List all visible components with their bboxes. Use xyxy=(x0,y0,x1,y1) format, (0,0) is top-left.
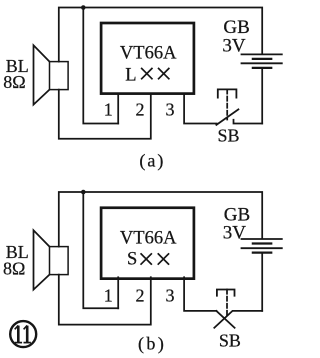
svg-text:SB: SB xyxy=(219,330,241,350)
pin 2 lead (a) and wire to speaker bottom xyxy=(59,90,151,139)
speaker BL (a) cone xyxy=(34,45,50,104)
svg-text:3: 3 xyxy=(166,285,175,305)
svg-text:1: 1 xyxy=(104,100,113,120)
svg-text:(b): (b) xyxy=(138,333,167,354)
svg-text:S: S xyxy=(127,250,137,270)
svg-text:VT66A: VT66A xyxy=(120,43,177,63)
figure number 11 digits xyxy=(15,325,31,342)
speaker BL (a) driver box xyxy=(50,62,69,90)
wire: (a) top bus from speaker up over to battery positive xyxy=(59,8,262,62)
svg-text:3: 3 xyxy=(166,100,175,120)
battery GB (a) long plate lower xyxy=(242,62,282,64)
svg-text:1: 1 xyxy=(104,285,113,305)
wire: (a) battery negative down to switch xyxy=(261,68,263,123)
pin 3 lead (b) and wire to switch xyxy=(184,277,216,311)
svg-text:(a): (a) xyxy=(139,151,165,172)
speaker BL (b) driver box xyxy=(50,247,69,275)
wire: (b) battery negative down to switch xyxy=(261,253,263,311)
switch SB (b) actuator dashed stem xyxy=(226,290,228,318)
chip label X symbol 2 of L×× (a) xyxy=(159,69,169,79)
svg-text:3V: 3V xyxy=(222,36,246,57)
svg-text:2: 2 xyxy=(136,100,145,120)
node: (b) junction dot on top bus xyxy=(81,190,86,195)
switch SB (b) crossed blade left xyxy=(216,311,234,328)
switch SB (a) actuator dashed stem xyxy=(226,89,228,119)
pin 1 lead (a) xyxy=(117,94,119,124)
svg-text:8Ω: 8Ω xyxy=(3,72,25,92)
wire: (b) top bus from speaker up over to battery positive xyxy=(59,192,262,247)
chip label X symbol 2 of S×× (b) xyxy=(158,254,168,264)
switch SB (a) push-button bracket xyxy=(218,89,237,97)
svg-text:VT66A: VT66A xyxy=(120,228,177,248)
svg-text:3V: 3V xyxy=(223,223,247,244)
switch SB (a) blade xyxy=(216,109,238,125)
battery GB (a) short plate bottom xyxy=(253,67,271,69)
op-amp: (b) VT66A chip body U2 xyxy=(101,208,194,279)
svg-text:2: 2 xyxy=(136,285,145,305)
speaker BL (b) cone xyxy=(34,230,50,289)
wire: (b) junction down to pin 1 xyxy=(83,192,118,308)
chip label X symbol 1 of S×× (b) xyxy=(141,254,151,264)
node: (a) junction dot on top bus xyxy=(81,5,86,10)
battery GB (a) long plate top xyxy=(242,53,282,55)
switch SB (a) fixed contact and wire to right bus xyxy=(234,120,263,124)
pin 2 lead (b) and wire to speaker bottom xyxy=(59,275,151,325)
battery GB (b) short plate bottom xyxy=(253,251,271,253)
wire: (a) junction down to pin 1 xyxy=(83,8,118,124)
pin 1 lead (b) xyxy=(117,277,119,308)
chip label X symbol 1 of L×× (a) xyxy=(142,69,152,79)
figure number circle ⑪ xyxy=(10,321,36,347)
svg-text:L: L xyxy=(125,66,136,86)
switch SB (b) push-button bracket xyxy=(217,290,235,296)
battery GB (b) long plate lower xyxy=(242,247,282,249)
svg-text:SB: SB xyxy=(217,126,239,146)
battery GB (b) short plate upper xyxy=(253,242,271,244)
battery GB (b) long plate top xyxy=(242,238,282,240)
switch SB (b) crossed blade right and wire to right bus xyxy=(214,311,262,328)
op-amp: (a) VT66A chip body U1 xyxy=(101,23,194,94)
svg-text:8Ω: 8Ω xyxy=(3,258,25,278)
pin 3 lead (a) and wire to switch xyxy=(184,94,217,124)
battery GB (a) short plate upper xyxy=(253,58,271,60)
